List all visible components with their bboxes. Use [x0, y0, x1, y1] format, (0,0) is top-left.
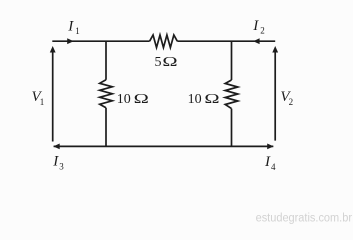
wire right shunt top lead [231, 41, 233, 80]
voltage arrow V1 head (points up) [50, 46, 56, 53]
svg-text:5: 5 [155, 55, 162, 70]
value label 5 ohm [155, 55, 178, 70]
label V2 [280, 89, 293, 107]
wire right shunt bottom lead [231, 109, 233, 147]
label I3 [52, 154, 64, 172]
svg-text:Ω: Ω [204, 92, 219, 107]
svg-text:I: I [67, 18, 74, 34]
voltage arrow V2 shaft [274, 52, 276, 141]
current arrow I4 head (points right) [267, 144, 273, 150]
svg-text:I: I [252, 18, 259, 34]
svg-text:2: 2 [260, 26, 265, 36]
svg-text:Ω: Ω [134, 92, 149, 107]
resistor R1 10 ohm left zigzag [100, 80, 113, 108]
label I4 [264, 154, 276, 172]
voltage arrow V1 shaft [52, 52, 54, 142]
label V1 [32, 89, 45, 107]
svg-text:1: 1 [40, 97, 45, 107]
wire top conductor left segment (node A to R series) [52, 40, 149, 42]
svg-text:I: I [264, 154, 271, 170]
value label 10 ohm left [117, 92, 149, 107]
svg-text:3: 3 [59, 161, 64, 171]
label I1 [67, 18, 80, 36]
svg-text:2: 2 [289, 97, 294, 107]
current arrow I1 head (points right) [67, 38, 73, 44]
svg-text:10: 10 [188, 92, 202, 107]
wire left shunt bottom lead [105, 108, 107, 147]
svg-text:4: 4 [271, 162, 276, 172]
voltage arrow V2 head (points up) [272, 46, 278, 53]
label I2 [252, 18, 264, 36]
svg-text:1: 1 [75, 26, 80, 36]
current arrow I3 head (points left) [53, 144, 59, 150]
svg-text:Ω: Ω [162, 55, 177, 70]
resistor R series 5 ohm zigzag [150, 35, 178, 48]
wire left shunt top lead [105, 41, 107, 80]
current arrow I2 head (points left) [253, 38, 259, 44]
resistor R2 10 ohm right zigzag [225, 80, 238, 109]
wire bottom conductor [54, 145, 274, 147]
svg-text:estudegratis.com.br: estudegratis.com.br [256, 213, 353, 225]
svg-text:10: 10 [117, 92, 131, 107]
svg-text:I: I [52, 154, 59, 170]
value label 10 ohm right [188, 92, 220, 107]
wire top conductor right segment (R series to node B) [177, 40, 275, 42]
